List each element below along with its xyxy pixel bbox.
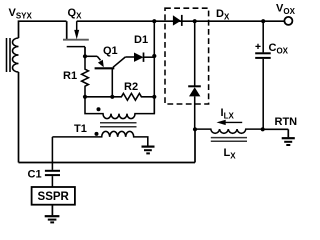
wire gate drop	[84, 47, 86, 57]
resistor R2	[85, 93, 154, 100]
wire top rail right of QX	[77, 20, 155, 22]
block SSPR	[32, 187, 75, 205]
node Q1 base	[110, 95, 114, 99]
arrow ILX (current direction)	[217, 120, 243, 125]
node R1 bottom	[83, 95, 87, 99]
node D1 cathode	[152, 54, 156, 58]
wire Q1 collector to D1	[125, 56, 134, 58]
T1 core	[100, 123, 137, 127]
node R2 right	[152, 95, 156, 99]
LX core	[211, 138, 247, 142]
diode D1	[134, 53, 154, 62]
node ILX junction	[193, 127, 197, 131]
diode DX series	[173, 15, 182, 26]
transistor QX (P-MOSFET)	[63, 21, 89, 46]
wire left vertical down	[18, 72, 20, 163]
core bars (input inductor)	[7, 38, 11, 72]
node DX internal	[193, 19, 197, 23]
node gate/R1/Q1-emitter	[83, 54, 87, 58]
node COX bottom junction	[261, 127, 265, 131]
svg-text:D1: D1	[134, 34, 148, 46]
svg-text:R1: R1	[63, 70, 77, 82]
wire vertical at x=154 (rail to D1 to R2 to T1)	[153, 21, 155, 113]
svg-text:C1: C1	[28, 169, 42, 181]
diode DX shunt (pointing up)	[188, 21, 201, 129]
wire right vertical to ILX node	[194, 129, 196, 162]
phase dot T1 top	[97, 107, 101, 111]
inductor LX	[195, 129, 263, 133]
phase dot T1 bottom	[95, 132, 99, 136]
wire top-left rail	[19, 21, 67, 38]
transformer T1 secondary (bottom winding)	[52, 131, 147, 145]
ground (SSPR)	[45, 205, 60, 223]
ground (RTN)	[282, 129, 295, 145]
resistor R1	[82, 56, 89, 97]
ground (T1 secondary)	[142, 147, 155, 154]
terminal VOX	[263, 20, 284, 22]
svg-text:Q1: Q1	[103, 45, 118, 57]
svg-text:T1: T1	[74, 123, 87, 135]
svg-text:SSPR: SSPR	[38, 191, 70, 203]
capacitor C1	[45, 137, 60, 187]
capacitor COX	[255, 21, 271, 129]
wire to RTN	[263, 128, 289, 130]
dashed box (DX rectifier)	[165, 8, 209, 104]
svg-text:RTN: RTN	[275, 116, 298, 128]
transistor Q1 (PNP)	[85, 56, 125, 97]
wire bottom long rail	[19, 162, 196, 164]
transformer T1 primary (top winding)	[85, 97, 154, 119]
wire rail through box to VOX	[154, 20, 263, 22]
inductor primary winding (VSYX input coil)	[13, 38, 19, 72]
node VOX junction	[261, 19, 265, 23]
node rail/x154	[152, 19, 156, 23]
svg-text:R2: R2	[124, 81, 138, 93]
